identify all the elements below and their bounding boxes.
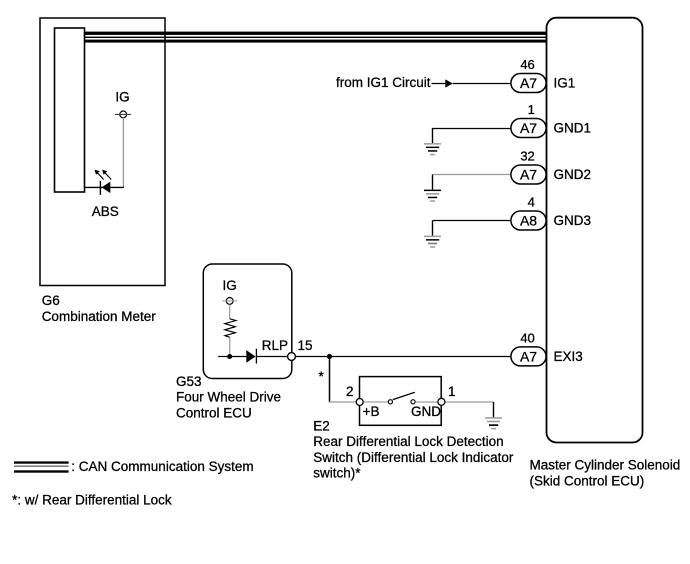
svg-text:IG: IG	[223, 278, 237, 293]
wire terminal to resistor (gray)	[229, 305, 231, 319]
combination meter block G6	[40, 18, 165, 286]
svg-text:1: 1	[448, 384, 456, 399]
svg-text:from IG1 Circuit: from IG1 Circuit	[336, 75, 431, 90]
diode D (in G53)	[246, 349, 256, 364]
svg-text:EXI3: EXI3	[554, 349, 583, 364]
svg-text:4: 4	[528, 195, 535, 210]
connector pin A7 GND1	[511, 119, 546, 138]
svg-text:G53: G53	[176, 374, 202, 389]
svg-text:GND3: GND3	[554, 213, 592, 228]
wire resistor to junction (gray)	[229, 337, 231, 356]
svg-text:IG1: IG1	[554, 76, 576, 91]
svg-text:ABS: ABS	[92, 204, 119, 219]
pin 15 circle	[288, 353, 296, 361]
svg-text:Switch (Differential Lock Indi: Switch (Differential Lock Indicator	[313, 450, 514, 465]
pin 1 circle	[438, 398, 445, 405]
connector pin A7 EXI3	[511, 347, 546, 366]
junction dot	[227, 354, 232, 359]
svg-text:E2: E2	[313, 419, 330, 434]
svg-text:Control ECU: Control ECU	[176, 405, 252, 420]
resistor	[225, 319, 236, 338]
CAN legend bus symbol	[14, 461, 69, 472]
svg-text:A7: A7	[520, 167, 537, 183]
svg-text:32: 32	[520, 149, 534, 164]
svg-text:switch)*: switch)*	[313, 466, 361, 481]
svg-text:*: *	[319, 369, 325, 384]
wire branch down to E2	[329, 357, 331, 403]
svg-text:A7: A7	[520, 120, 537, 136]
terminal IG (G53)	[222, 298, 237, 305]
svg-text:G6: G6	[42, 293, 60, 308]
wire LED anode horizontal	[85, 186, 124, 188]
svg-text:*: w/ Rear Differential Lock: *: w/ Rear Differential Lock	[12, 492, 172, 507]
svg-text:GND1: GND1	[554, 121, 592, 136]
ground (GND1)	[424, 143, 441, 155]
wire pin 15 to EXI3	[295, 356, 511, 358]
svg-text:+B: +B	[363, 404, 380, 419]
wire from IG1 circuit with arrow	[432, 79, 511, 87]
connector pin A7 IG1	[511, 74, 546, 93]
connector pin A7 GND2	[511, 165, 546, 184]
ground (GND3)	[424, 236, 441, 248]
svg-text:40: 40	[520, 330, 534, 345]
svg-text:1: 1	[528, 102, 535, 117]
svg-text:: CAN Communication System: : CAN Communication System	[71, 459, 253, 474]
wire to E2 pin 2 (gray)	[329, 401, 356, 403]
wire GND3	[433, 221, 511, 236]
svg-text:A7: A7	[520, 349, 537, 365]
wire to diode	[218, 356, 246, 358]
svg-text:A8: A8	[520, 213, 537, 229]
CAN bus main run	[85, 32, 547, 43]
wire GND1	[433, 128, 511, 143]
svg-text:RLP: RLP	[262, 338, 288, 353]
meter sub-panel	[55, 28, 85, 192]
svg-text:Combination Meter: Combination Meter	[42, 309, 157, 324]
svg-text:Master Cylinder Solenoid: Master Cylinder Solenoid	[530, 458, 681, 473]
svg-text:(Skid Control ECU): (Skid Control ECU)	[530, 474, 645, 489]
svg-text:15: 15	[298, 338, 313, 353]
wire pin 1 to ground (gray)	[445, 401, 493, 403]
svg-text:IG: IG	[115, 90, 129, 105]
svg-text:GND2: GND2	[554, 167, 592, 182]
junction dot (branch to E2)	[327, 354, 332, 359]
switch contacts and blade	[364, 392, 438, 404]
terminal IG (G6)	[115, 111, 131, 118]
svg-text:2: 2	[346, 384, 354, 399]
pin 2 circle	[356, 399, 363, 406]
ground (GND2)	[424, 190, 441, 202]
wire diode to pin 15	[256, 356, 287, 358]
svg-text:46: 46	[520, 57, 534, 72]
svg-text:Four Wheel Drive: Four Wheel Drive	[176, 390, 281, 405]
svg-text:A7: A7	[520, 75, 537, 91]
wire IG to LED (gray vertical)	[122, 118, 124, 188]
connector pin A8 GND3	[511, 211, 546, 230]
wire GND2 (gray)	[433, 175, 511, 190]
svg-text:Rear Differential Lock Detecti: Rear Differential Lock Detection	[313, 434, 503, 449]
rear differential lock detection switch box E2	[360, 377, 442, 426]
wire down to ground	[493, 402, 495, 417]
ground (E2)	[485, 417, 502, 429]
svg-text:GND: GND	[411, 404, 441, 419]
LED indicator ABS	[95, 170, 112, 195]
four wheel drive control ECU block G53	[203, 264, 291, 379]
master cylinder solenoid block	[547, 18, 643, 443]
